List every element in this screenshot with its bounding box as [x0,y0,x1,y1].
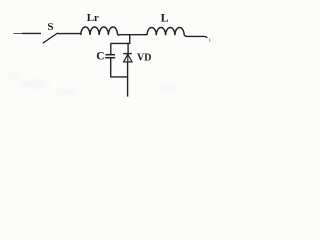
svg-text:C: C [96,50,104,62]
svg-text:VD: VD [137,53,151,64]
svg-text:Lr: Lr [87,12,99,24]
svg-text:S: S [47,21,53,33]
svg-text:L: L [161,11,169,25]
